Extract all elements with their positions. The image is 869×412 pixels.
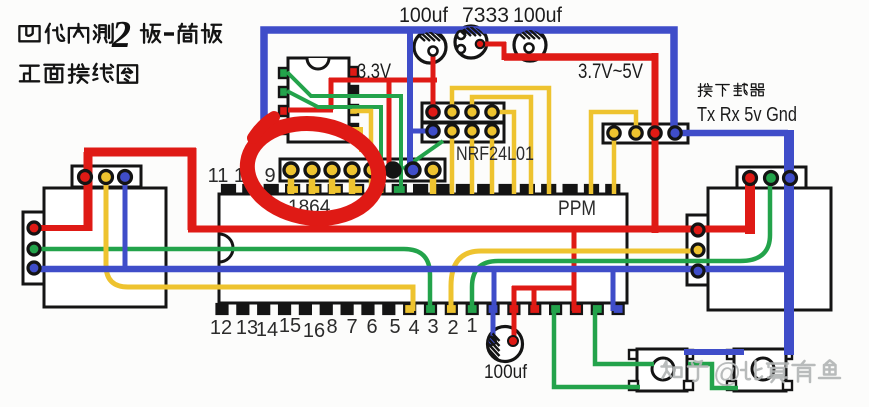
svg-text:9: 9 — [264, 165, 275, 187]
svg-text:3.7V~5V: 3.7V~5V — [578, 60, 643, 83]
svg-text:@: @ — [713, 357, 741, 388]
svg-text:14: 14 — [256, 319, 278, 341]
svg-text:2: 2 — [447, 317, 458, 339]
svg-text:Tx Rx 5v Gnd: Tx Rx 5v Gnd — [697, 104, 797, 126]
svg-text:2: 2 — [111, 14, 131, 56]
svg-text:3.3V: 3.3V — [357, 60, 391, 83]
svg-text:5: 5 — [389, 316, 400, 338]
svg-text:7333: 7333 — [462, 4, 509, 27]
svg-text:100uf: 100uf — [513, 4, 562, 27]
svg-text:11: 11 — [208, 165, 229, 187]
svg-text:15: 15 — [279, 315, 301, 337]
svg-text:8: 8 — [326, 316, 337, 338]
svg-text:4: 4 — [408, 317, 419, 339]
svg-text:100uf: 100uf — [484, 362, 528, 383]
svg-text:100uf: 100uf — [399, 4, 448, 27]
svg-text:NRF24L01: NRF24L01 — [456, 144, 534, 165]
svg-text:16: 16 — [303, 320, 325, 342]
svg-text:6: 6 — [366, 316, 377, 338]
svg-text:12: 12 — [210, 317, 232, 339]
svg-text:1: 1 — [466, 315, 477, 337]
svg-text:13: 13 — [236, 317, 258, 339]
svg-text:3: 3 — [427, 316, 438, 338]
svg-text:7: 7 — [346, 316, 357, 338]
svg-text:PPM: PPM — [558, 197, 596, 220]
